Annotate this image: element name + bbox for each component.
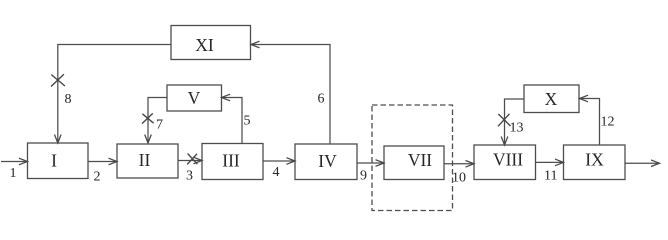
wire: stream 12 from IX up to X	[580, 95, 600, 145]
block II	[117, 144, 178, 178]
valve on stream 3	[187, 154, 197, 165]
svg-text:9: 9	[360, 169, 367, 184]
svg-text:5: 5	[244, 114, 251, 129]
block VII	[384, 146, 444, 180]
wire: stream 10 from VII to VIII	[444, 161, 474, 168]
svg-text:IX: IX	[585, 150, 604, 170]
svg-text:12: 12	[601, 115, 615, 130]
svg-text:VIII: VIII	[493, 150, 523, 170]
wire: feed stream 1 into I	[1, 158, 28, 165]
block I	[28, 143, 89, 179]
wire: stream 3 from II to III	[178, 157, 202, 164]
wire: stream 6 from IV up to XI	[251, 41, 330, 144]
svg-text:X: X	[545, 89, 558, 109]
wire: product stream out of IX	[625, 160, 660, 167]
wire: stream 4 from III to IV	[263, 158, 295, 165]
valve on stream 7	[142, 113, 154, 123]
svg-text:II: II	[139, 150, 151, 170]
block III	[202, 144, 263, 180]
dashed boundary around VII	[372, 105, 453, 211]
wire: recycle from X down to VIII (stream 13)	[501, 99, 524, 145]
block X	[524, 85, 579, 113]
wire: stream 11 from VIII to IX	[536, 159, 564, 166]
svg-text:4: 4	[273, 165, 280, 180]
wire: stream 9 from IV to VII	[357, 160, 384, 167]
svg-text:3: 3	[186, 169, 193, 184]
svg-text:10: 10	[452, 171, 466, 186]
svg-text:11: 11	[544, 169, 557, 184]
wire: stream 5 from III up to V	[222, 94, 243, 143]
svg-text:IV: IV	[318, 151, 337, 171]
svg-text:8: 8	[65, 92, 72, 107]
svg-text:VII: VII	[408, 150, 432, 170]
block XI	[171, 26, 251, 60]
svg-text:XI: XI	[195, 35, 214, 55]
block V	[167, 85, 222, 111]
valve on stream 8	[51, 74, 65, 86]
valve on stream 13	[498, 114, 511, 127]
svg-text:III: III	[222, 151, 240, 171]
block IX	[564, 145, 626, 180]
svg-text:1: 1	[10, 166, 17, 181]
block VIII	[474, 145, 536, 180]
wire: recycle from V down to II (stream 7)	[145, 98, 167, 144]
svg-text:I: I	[51, 151, 57, 171]
wire: recycle from XI down to I (stream 8)	[55, 45, 172, 144]
svg-text:2: 2	[94, 169, 101, 184]
svg-text:V: V	[188, 88, 201, 108]
svg-text:6: 6	[318, 92, 325, 107]
block IV	[295, 144, 357, 180]
svg-text:7: 7	[156, 118, 163, 133]
svg-text:13: 13	[510, 121, 524, 136]
wire: stream 2 from I to II	[88, 158, 117, 165]
